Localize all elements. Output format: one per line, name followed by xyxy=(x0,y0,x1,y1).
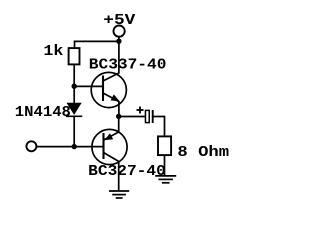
transistor Q1 base bar xyxy=(102,76,104,102)
svg-text:8 Ohm: 8 Ohm xyxy=(177,145,229,161)
wire capacitor C1 to resistor R2 xyxy=(153,117,165,137)
wire input terminal to diode node xyxy=(37,146,75,148)
svg-text:+5V: +5V xyxy=(103,13,135,29)
wire base of Q2 xyxy=(74,146,103,148)
transistor Q1 emitter with arrow xyxy=(103,93,119,116)
wire diode bottom to input line xyxy=(73,116,75,146)
svg-text:1N4148: 1N4148 xyxy=(15,105,71,121)
svg-text:BC337-40: BC337-40 xyxy=(89,57,167,73)
wire diode top from base node xyxy=(73,86,75,103)
wire emitter of Q2 from output node xyxy=(104,116,119,139)
capacitor C1 plus sign xyxy=(137,109,144,111)
diode D1 1N4148 triangle xyxy=(67,103,82,115)
node +5V terminal xyxy=(114,26,125,37)
wire resistor R1 bottom to base node xyxy=(73,65,75,86)
ground left xyxy=(109,191,129,198)
wire base of Q1 xyxy=(74,85,103,87)
wire top horizontal to resistor R1 xyxy=(75,41,119,47)
diode D1 cathode bar xyxy=(66,115,82,117)
capacitor C1 positive plate xyxy=(145,110,149,122)
wire collector of Q1 up to +5V rail xyxy=(103,41,119,81)
node input terminal xyxy=(26,141,36,151)
ground right xyxy=(155,176,176,183)
transistor Q1 emitter arrowhead xyxy=(111,94,120,101)
junction dot diode bottom node xyxy=(72,144,77,149)
transistor Q2 base bar xyxy=(102,133,104,159)
junction dot output node xyxy=(116,114,121,119)
wire collector of Q2 down to ground xyxy=(104,153,119,191)
transistor Q1 BC337-40 body circle xyxy=(91,72,126,107)
wire output node to capacitor C1 xyxy=(119,116,146,118)
transistor Q2 emitter arrowhead xyxy=(104,133,113,140)
svg-text:1k: 1k xyxy=(43,44,63,60)
wire from +5V terminal to junction xyxy=(118,37,120,42)
resistor R2 8 Ohm body xyxy=(158,136,171,155)
transistor Q2 BC327-40 body circle xyxy=(92,129,127,164)
junction dot base node of Q1 xyxy=(72,84,77,89)
resistor R1 1k body xyxy=(69,48,80,64)
junction dot at +5V rail xyxy=(116,39,121,44)
wire resistor R2 to ground xyxy=(164,155,166,176)
capacitor C1 negative plate xyxy=(152,110,154,123)
svg-text:BC327-40: BC327-40 xyxy=(88,164,166,180)
